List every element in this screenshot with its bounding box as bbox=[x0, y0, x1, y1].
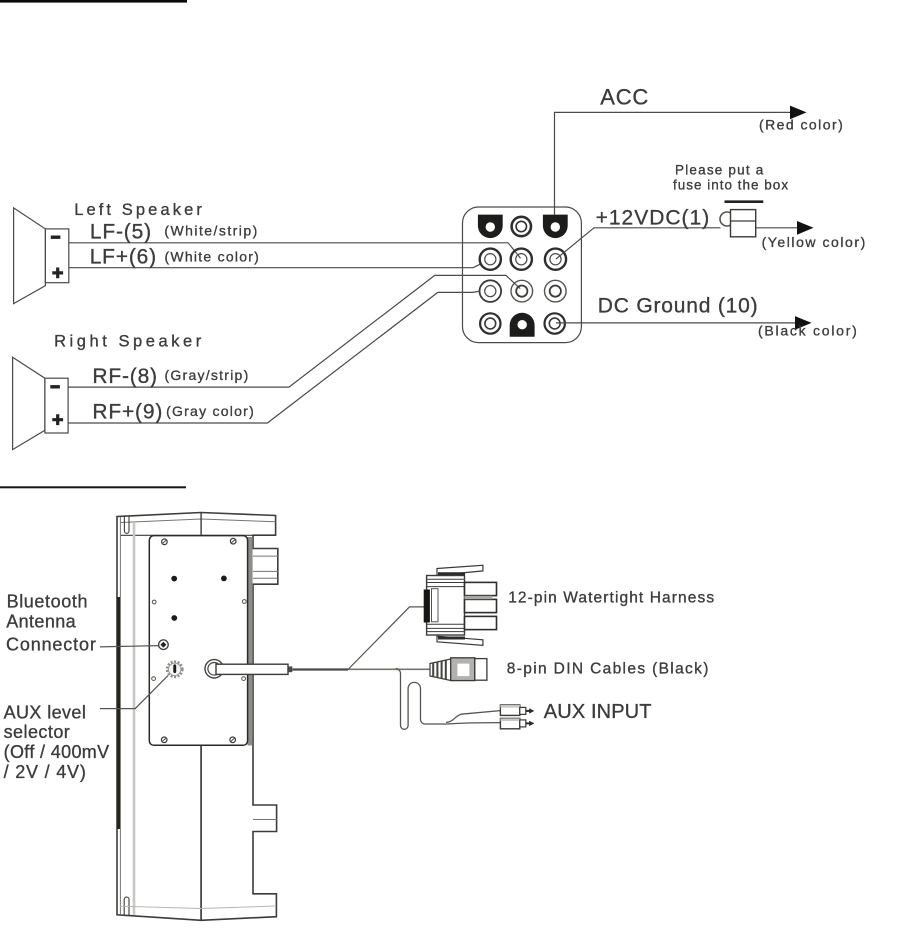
12-pin watertight harness connector bbox=[424, 565, 497, 645]
pin row4 col1 bbox=[480, 313, 500, 333]
svg-text:+12VDC(1): +12VDC(1) bbox=[596, 206, 711, 229]
top cap underside bbox=[120, 534, 276, 536]
connector block body bbox=[463, 207, 582, 343]
left speaker icon bbox=[14, 208, 69, 304]
panel dot 3 bbox=[171, 615, 177, 621]
svg-text:Please put a: Please put a bbox=[675, 163, 764, 178]
screw bottom-left bbox=[161, 737, 167, 743]
bottom-left clip bbox=[124, 897, 129, 915]
top cap divider bbox=[200, 513, 202, 536]
svg-text:AUX INPUT: AUX INPUT bbox=[544, 701, 652, 723]
wire DC Ground bbox=[556, 322, 810, 324]
panel small circle 1 bbox=[152, 600, 156, 604]
top protrusion lines bbox=[253, 556, 278, 578]
panel small circle 4 bbox=[242, 677, 246, 681]
panel shadow band bbox=[247, 537, 252, 746]
svg-text:RF+(9): RF+(9) bbox=[92, 400, 163, 423]
left edge dark band bbox=[117, 597, 120, 829]
svg-text:LF+(6): LF+(6) bbox=[90, 246, 157, 269]
svg-text:Connector: Connector bbox=[6, 634, 97, 654]
bottom protrusion line bbox=[253, 819, 277, 821]
svg-text:/ 2V / 4V): / 2V / 4V) bbox=[4, 762, 87, 782]
svg-text:12-pin Watertight Harness: 12-pin Watertight Harness bbox=[508, 589, 715, 606]
unit body outline bbox=[117, 513, 278, 921]
left dark block bbox=[424, 590, 430, 623]
svg-text:(Gray/strip): (Gray/strip) bbox=[165, 367, 250, 383]
pin row2 col1 bbox=[480, 249, 501, 270]
bottom inner line bbox=[120, 906, 276, 909]
pin row3 col1 bbox=[480, 280, 502, 302]
lower body divider bbox=[200, 745, 202, 920]
left edge inner line bbox=[119, 517, 121, 915]
wire LF+(6) bbox=[69, 264, 480, 267]
svg-text:(Black color): (Black color) bbox=[758, 323, 859, 339]
pointer line aux selector bbox=[100, 676, 168, 709]
panel dot 2 bbox=[221, 576, 227, 582]
wire 12V to arrow bbox=[756, 227, 813, 229]
svg-text:fuse into the box: fuse into the box bbox=[673, 177, 789, 192]
svg-text:(White color): (White color) bbox=[165, 249, 261, 265]
pin D3 bottom-middle bbox=[510, 313, 535, 337]
arrow ACC bbox=[790, 106, 807, 120]
cable bar tip bbox=[288, 666, 292, 672]
aux top wire bbox=[446, 711, 500, 723]
svg-text:Right Speaker: Right Speaker bbox=[54, 332, 205, 350]
section rule middle bbox=[0, 486, 186, 488]
screw bottom-right bbox=[230, 737, 236, 743]
arrow DC Ground bbox=[795, 316, 812, 330]
svg-text:AUX level: AUX level bbox=[4, 703, 87, 723]
screw top-left bbox=[162, 539, 168, 545]
screw top-right bbox=[230, 538, 236, 544]
pin row3 col3 bbox=[545, 280, 567, 302]
pin top-middle bbox=[512, 217, 531, 236]
top cap inner line bbox=[120, 519, 276, 523]
svg-text:LF-(5): LF-(5) bbox=[90, 220, 152, 243]
RCA plug top bbox=[500, 705, 534, 715]
wire branch to 12-pin bbox=[348, 607, 425, 670]
AUX level selector knob bbox=[167, 662, 182, 677]
svg-text:selector: selector bbox=[4, 722, 71, 742]
pin row4 col3 bbox=[545, 313, 565, 333]
svg-text:(White/strip): (White/strip) bbox=[164, 223, 258, 239]
svg-text:RF-(8): RF-(8) bbox=[92, 365, 157, 388]
8-pin DIN connector bbox=[430, 658, 487, 681]
pointer line bluetooth bbox=[100, 646, 158, 647]
wire ACC bbox=[555, 112, 805, 215]
pin D1 top-left bbox=[478, 215, 503, 239]
fuse box bbox=[731, 210, 756, 237]
pin row2 col2 bbox=[511, 249, 532, 270]
pin row2 col3 bbox=[545, 249, 566, 270]
wire LF-(5) bbox=[69, 243, 521, 258]
panel small circle 3 bbox=[152, 677, 156, 681]
bottom tab bbox=[437, 636, 483, 645]
svg-text:Antenna: Antenna bbox=[6, 612, 76, 632]
thick wire from tip bbox=[292, 668, 348, 670]
pin D2 top-right bbox=[543, 215, 568, 239]
right speaker icon bbox=[13, 357, 69, 449]
main cable connector rings bbox=[205, 660, 223, 678]
body bbox=[427, 576, 465, 636]
panel dot 1 bbox=[171, 576, 177, 582]
svg-text:Bluetooth: Bluetooth bbox=[7, 591, 88, 611]
svg-text:(Red color): (Red color) bbox=[759, 116, 844, 132]
pin row3 col2 bbox=[511, 280, 533, 302]
inner stripe bbox=[432, 589, 439, 622]
svg-text:(Gray color): (Gray color) bbox=[166, 403, 255, 419]
bluetooth antenna connector bbox=[159, 640, 169, 650]
wire +12VDC bbox=[556, 228, 721, 259]
rear panel bbox=[149, 536, 247, 746]
top-left clip bbox=[124, 516, 129, 533]
section rule top bbox=[0, 0, 187, 3]
fuse cap line bbox=[725, 200, 764, 203]
fuse holder circle bbox=[720, 212, 734, 226]
wire RF-(8) bbox=[68, 275, 520, 387]
panel small circle 2 bbox=[242, 600, 246, 604]
svg-text:DC Ground (10): DC Ground (10) bbox=[598, 295, 759, 318]
svg-text:8-pin DIN Cables (Black): 8-pin DIN Cables (Black) bbox=[507, 660, 710, 677]
arrow 12V bbox=[797, 221, 814, 235]
svg-text:ACC: ACC bbox=[600, 84, 649, 109]
svg-text:(Off / 400mV: (Off / 400mV bbox=[4, 742, 110, 762]
wire RF+(9) bbox=[68, 291, 479, 423]
main cable bar bbox=[216, 664, 288, 674]
left face line bbox=[133, 522, 136, 915]
svg-text:(Yellow color): (Yellow color) bbox=[762, 234, 867, 250]
top tab bbox=[437, 565, 483, 575]
aux squiggle cable bbox=[396, 669, 501, 730]
svg-text:Left Speaker: Left Speaker bbox=[74, 201, 205, 219]
wire to DIN bbox=[348, 668, 430, 670]
fins bbox=[465, 582, 497, 595]
RCA plug bottom bbox=[500, 718, 534, 728]
